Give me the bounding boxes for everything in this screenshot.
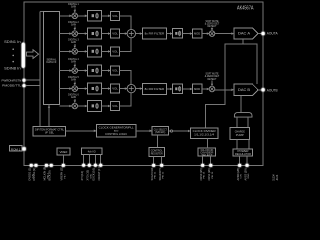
svg-text:5.0V: 5.0V [241,173,243,178]
wire format control to clock generator [66,130,97,132]
FIR filter A [142,28,166,39]
chip boundary [24,2,263,165]
wire modulator A to mute mixer A [202,33,209,35]
VREF box [57,148,70,155]
svg-text:BICK (9): BICK (9) [48,170,52,180]
modulator B [192,84,202,93]
svg-text:MOD: MOD [194,87,200,91]
pin AOUTB [262,88,265,91]
pad BICK [50,164,53,167]
clock generator box [96,125,136,137]
mute control arrow A [211,28,213,30]
wire ch3 to mix rail A [120,38,131,52]
wire control rail vertical [39,12,41,127]
wire FIR A to interpolator A [167,33,172,35]
svg-text:GAIN: GAIN [71,41,76,44]
wire demux to format control [48,105,50,127]
svg-text:CLOCK GENERATOR/PLL: CLOCK GENERATOR/PLL [99,127,135,130]
svg-text:CKOUT (17): CKOUT (17) [97,166,101,181]
bus arrow into serial interface [27,50,39,59]
svg-text:DVSS1 (3): DVSS1 (3) [32,168,36,181]
pad CKOUT [99,164,102,167]
svg-text:PIN 22: PIN 22 [163,171,165,178]
svg-text:POWER: POWER [238,151,249,153]
svg-text:AVDD (28): AVDD (28) [236,168,240,180]
svg-text:DAC A: DAC A [238,32,251,36]
svg-text:CKS0 (25): CKS0 (25) [199,168,203,180]
clock rail to DACs [206,44,258,128]
wire ch4 to mix rail B [120,71,131,85]
mute control arrow B [211,80,213,85]
svg-text:XTO (15): XTO (15) [86,170,90,181]
svg-text:8x FIR FILTER: 8x FIR FILTER [145,87,165,91]
svg-text:AK4567A: AK4567A [237,6,254,12]
wires osc pads [83,155,85,164]
svg-text:GND: GND [248,173,250,178]
wire ch2 into summer A [120,33,127,35]
soft mute mixer B [209,86,215,92]
channel 6 row [59,99,119,112]
wires regulator pads [239,156,241,164]
wire DAC B to pin [258,89,261,91]
svg-text:PIN 25: PIN 25 [204,171,206,178]
svg-text:GAIN: GAIN [71,23,76,26]
clock mode select box [198,148,216,156]
svg-text:DVDD1 (2): DVDD1 (2) [28,168,32,181]
pad CKS1 [209,164,212,167]
modulator A [192,29,202,38]
switch dome [234,112,252,117]
svg-text:(MCLK): (MCLK) [155,131,165,134]
DAC B [234,84,258,95]
svg-text:PIN 26: PIN 26 [212,171,214,178]
charge pump box [230,128,250,140]
svg-text:GAIN: GAIN [71,6,76,9]
interpolator A [173,29,183,39]
pad CKS0 [201,164,204,167]
pad EXCK [94,164,97,167]
wire mode select pads [202,156,204,164]
channel 4 row [59,63,119,76]
wire ch5 into summer B [120,88,127,90]
svg-text:1/1,1/2,1/3,1/4: 1/1,1/2,1/3,1/4 [194,134,215,137]
wire clk to divider [173,130,191,132]
power regulator box [233,149,253,156]
svg-text:GAIN: GAIN [71,60,76,63]
pad DVDD [30,164,33,167]
pad DVSS [35,164,38,167]
svg-text:PMODE/TTL: PMODE/TTL [2,84,22,88]
svg-text:FILT: FILT [64,174,66,179]
svg-text:GAIN: GAIN [71,78,76,81]
pad SCL [152,164,155,167]
wire mode select up [206,139,208,149]
svg-text:DAC B: DAC B [238,88,250,92]
svg-text:MCLKIN (8): MCLKIN (8) [43,167,47,181]
channel 2 row [59,26,119,39]
wires charge pump to regulator [236,139,238,149]
svg-text:SELECT: SELECT [202,155,214,157]
wire PMODE to control rail [26,85,41,87]
wire summer B to FIR B [136,88,142,90]
wire PWRDN to control rail [26,79,41,81]
svg-text:REGISTER: REGISTER [151,152,163,155]
svg-text:AOUTB: AOUTB [267,88,278,92]
svg-text:DETECT: DETECT [208,25,217,28]
bottom pin labels [28,166,251,181]
wire clock generator to clk select [136,130,152,132]
node SDIN bus pins (stack of input pins) [22,43,25,68]
wire FIR B to interpolator B [167,88,172,90]
svg-text:SDIN1 In: SDIN1 In [4,40,21,44]
svg-text:I/F SEL: I/F SEL [45,133,55,135]
clock divider box [191,128,218,139]
serial audio interface / demux box U1 [44,12,60,105]
node clk out [169,130,171,132]
channel 5 row [59,81,119,94]
wire interpolator B to modulator B [183,88,192,90]
wire VREF pad [62,155,64,164]
pad SDA [160,164,163,167]
wires dome to charge pump [236,117,238,127]
svg-text:PWRDN/RSTN: PWRDN/RSTN [2,78,22,82]
svg-text:GAIN: GAIN [71,96,76,99]
pad XTO [88,164,91,167]
svg-text:VREFH (11): VREFH (11) [60,166,64,180]
svg-text:PIN 21: PIN 21 [155,171,157,178]
svg-text:4ch I/O: 4ch I/O [88,150,96,154]
soft mute mixer A [209,31,215,37]
pin TEST [23,147,26,150]
svg-text:8x FIR FILTER: 8x FIR FILTER [145,32,165,36]
svg-text:SDIN8 In: SDIN8 In [4,66,21,70]
summer A [127,29,135,37]
wire DAC A clock stub [242,39,244,44]
wire interpolator A to modulator A [183,33,192,35]
svg-text:DETECT: DETECT [208,78,217,81]
wire modulator B to mute mixer B [202,88,209,90]
svg-text:REGULATOR: REGULATOR [235,153,251,156]
pad VREF [62,164,65,167]
FIR filter B [142,84,166,95]
pad MCLK [45,164,48,167]
pin PMODE [23,84,26,87]
svg-text:MOD: MOD [194,32,200,36]
svg-text:EXCK (16): EXCK (16) [92,168,96,181]
svg-text:XTI (14): XTI (14) [80,171,84,181]
summer B [127,84,135,92]
external test box [10,146,23,152]
wire ch1 to mix rail A [120,16,131,30]
svg-text:DIF/TDM FORMAT CTRL: DIF/TDM FORMAT CTRL [35,129,65,132]
oscillator IO box [82,148,102,155]
svg-text:SCL/CCLK: SCL/CCLK [150,168,154,181]
channel 3 row [59,44,119,57]
serial format control box [33,126,65,136]
pad XTI [82,164,85,167]
svg-text:AVSS (29): AVSS (29) [243,168,247,180]
wire register pads [153,156,155,164]
clk select box [152,127,169,136]
wire control rail to demux top [40,11,44,13]
svg-text:CONTROL LOGIC: CONTROL LOGIC [105,133,127,136]
svg-text:DATA I/F: DATA I/F [47,61,57,64]
wire ch6 to mix rail B [120,93,131,106]
ellipsis dots [12,48,14,50]
svg-text:-0123: -0123 [276,174,279,181]
wire clk select down to register box [156,135,158,147]
wire mute A to DAC A [215,33,232,35]
svg-text:CKS1 (26): CKS1 (26) [207,168,211,180]
svg-text:AOUTA: AOUTA [267,32,278,36]
svg-text:ROM 1: ROM 1 [11,147,21,151]
svg-text:PUMP: PUMP [236,134,244,137]
svg-text:VREF: VREF [60,150,68,154]
wire mute B to DAC B [215,89,232,91]
pad AVSS [246,164,249,167]
DAC A [234,28,258,39]
interpolator B [173,84,183,94]
pad AVDD [238,164,241,167]
wire DAC B to cap dome [240,96,242,113]
svg-text:SDA/CDTI: SDA/CDTI [158,168,162,180]
wire summer A to FIR A [136,33,142,35]
pin AOUTA [262,32,265,35]
wire DAC A to pin [258,33,261,35]
control register box [149,147,164,156]
channel 1 row [59,9,119,22]
pin PWRDN [23,79,26,82]
